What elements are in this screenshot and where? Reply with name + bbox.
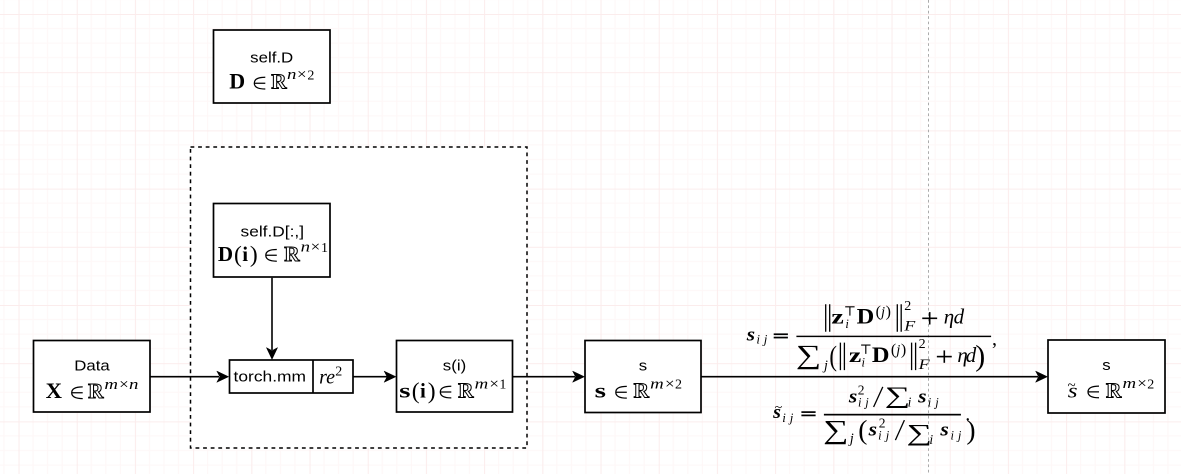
svg-text:×: × bbox=[489, 376, 499, 392]
svg-text:self.D[:,]: self.D[:,] bbox=[241, 225, 305, 241]
svg-text:i: i bbox=[862, 356, 866, 370]
svg-text:s: s bbox=[639, 358, 647, 374]
svg-text:R: R bbox=[458, 379, 474, 403]
svg-text:m: m bbox=[104, 377, 118, 393]
wire torch.mm to s(i) bbox=[354, 371, 396, 382]
box s bbox=[585, 341, 701, 413]
svg-text:D: D bbox=[229, 69, 245, 94]
svg-text:F: F bbox=[917, 357, 930, 373]
math D(i) in R^nx1 bbox=[218, 240, 328, 268]
box torch.mm with re^2 cell bbox=[230, 360, 354, 393]
svg-text:2: 2 bbox=[307, 68, 314, 83]
box s(i) bbox=[397, 341, 513, 413]
svg-text:s(i): s(i) bbox=[443, 358, 466, 374]
svg-text:): ) bbox=[901, 342, 906, 359]
svg-text:z: z bbox=[849, 343, 861, 367]
formula s_ij (first equation) bbox=[746, 299, 997, 374]
wire Data to torch.mm bbox=[151, 371, 229, 382]
svg-text:(: ( bbox=[412, 379, 420, 405]
svg-text:m: m bbox=[475, 376, 489, 392]
svg-text:i: i bbox=[242, 242, 248, 266]
svg-text:n: n bbox=[129, 377, 138, 393]
svg-text:2: 2 bbox=[335, 365, 342, 380]
svg-text:R: R bbox=[88, 379, 104, 403]
formula s~_ij (second equation) bbox=[772, 382, 975, 447]
svg-text:×: × bbox=[297, 67, 307, 83]
svg-text:i: i bbox=[929, 432, 933, 447]
svg-text:Data: Data bbox=[74, 358, 109, 374]
svg-text:∑: ∑ bbox=[885, 383, 911, 409]
svg-text:): ) bbox=[975, 340, 985, 373]
svg-text:R: R bbox=[634, 379, 650, 403]
svg-text:torch.mm: torch.mm bbox=[234, 369, 307, 385]
svg-text:i: i bbox=[420, 379, 426, 403]
svg-text:∑: ∑ bbox=[907, 420, 933, 446]
box self.D[:,] bbox=[214, 204, 331, 278]
svg-text:R: R bbox=[284, 242, 300, 266]
svg-text:n: n bbox=[287, 67, 296, 83]
math X in R^mxn bbox=[46, 377, 139, 403]
svg-text:self.D: self.D bbox=[250, 51, 293, 67]
box Data bbox=[34, 341, 151, 413]
svg-text:i: i bbox=[908, 395, 912, 410]
svg-text:~: ~ bbox=[1068, 378, 1076, 394]
svg-text:s: s bbox=[867, 419, 877, 440]
svg-text:∑: ∑ bbox=[796, 339, 821, 369]
math D in R^nx2 bbox=[229, 67, 314, 93]
wire s(i) to s bbox=[513, 371, 584, 382]
svg-text:X: X bbox=[46, 378, 63, 403]
svg-text:i: i bbox=[878, 429, 882, 443]
svg-text:i: i bbox=[756, 332, 760, 347]
svg-text:i: i bbox=[782, 410, 786, 425]
svg-text:m: m bbox=[650, 377, 664, 393]
svg-text:D: D bbox=[218, 242, 233, 266]
svg-text:×: × bbox=[311, 240, 321, 256]
svg-text:s: s bbox=[1102, 358, 1110, 374]
box s-tilde bbox=[1048, 340, 1165, 413]
svg-text:R: R bbox=[271, 70, 287, 94]
svg-text:s: s bbox=[939, 419, 949, 440]
page separator (dashed page boundary) bbox=[928, 0, 930, 474]
svg-text:F: F bbox=[903, 319, 916, 335]
svg-text:2: 2 bbox=[904, 299, 911, 314]
box self.D bbox=[214, 30, 331, 103]
svg-text:s: s bbox=[746, 325, 755, 345]
math re^2 bbox=[319, 365, 342, 389]
svg-text:): ) bbox=[886, 303, 891, 320]
math s in R^mx2 bbox=[595, 377, 682, 403]
svg-text:s: s bbox=[595, 379, 606, 403]
svg-text:×: × bbox=[665, 377, 675, 393]
svg-text:i: i bbox=[951, 429, 955, 443]
math s(i) in R^mx1 bbox=[399, 376, 506, 404]
svg-text:(: ( bbox=[858, 414, 867, 445]
svg-text:): ) bbox=[428, 379, 436, 405]
svg-text:(: ( bbox=[829, 341, 837, 373]
svg-text:∑: ∑ bbox=[823, 415, 848, 445]
wire self.D[:,] down to torch.mm bbox=[266, 278, 277, 360]
svg-text:1: 1 bbox=[499, 378, 506, 393]
svg-text:D: D bbox=[872, 342, 890, 367]
svg-text:m: m bbox=[1123, 376, 1137, 392]
svg-text:1: 1 bbox=[321, 241, 328, 256]
svg-text:re: re bbox=[319, 367, 335, 389]
svg-text:i: i bbox=[928, 396, 932, 410]
svg-text:): ) bbox=[966, 414, 975, 445]
svg-text:s: s bbox=[848, 386, 858, 407]
svg-text:s: s bbox=[917, 386, 927, 407]
svg-text:d: d bbox=[954, 305, 965, 329]
svg-text:2: 2 bbox=[675, 378, 682, 393]
math s~ in R^mx2 bbox=[1068, 376, 1155, 402]
svg-text:,: , bbox=[992, 328, 997, 350]
svg-text:×: × bbox=[119, 377, 129, 393]
svg-text:D: D bbox=[857, 304, 875, 329]
svg-text:i: i bbox=[858, 396, 862, 410]
svg-text:): ) bbox=[250, 242, 258, 268]
svg-text:2: 2 bbox=[919, 337, 926, 352]
wire s to s-tilde bbox=[702, 371, 1048, 382]
svg-text:s: s bbox=[399, 379, 410, 403]
svg-text:i: i bbox=[845, 317, 849, 331]
svg-text:R: R bbox=[1106, 378, 1122, 402]
svg-text:z: z bbox=[831, 305, 843, 329]
svg-text:n: n bbox=[301, 240, 310, 256]
svg-text:×: × bbox=[1137, 376, 1147, 392]
dashed group container bbox=[191, 147, 528, 448]
svg-text:2: 2 bbox=[1147, 377, 1154, 392]
svg-text:(: ( bbox=[234, 242, 242, 268]
